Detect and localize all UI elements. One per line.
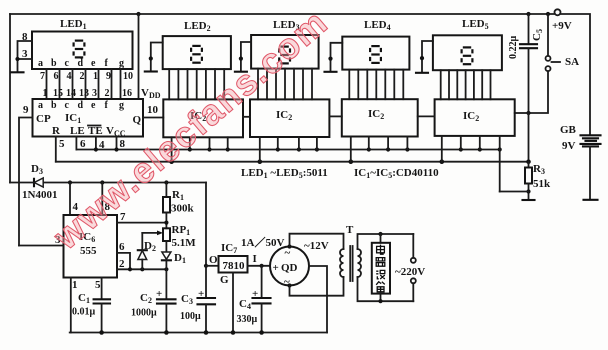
wire: rail to right corner [561,14,591,135]
svg-text:330μ: 330μ [237,314,258,325]
svg-text:Q: Q [133,114,142,126]
svg-text:~12V: ~12V [304,240,329,252]
svg-text:G: G [220,274,229,286]
svg-text:9: 9 [23,104,29,116]
wire: C5 node down to reset bus [528,113,530,162]
wires: LED3 to IC2#2 segment lines [258,69,312,100]
svg-text:1: 1 [43,88,48,99]
wires: LED4 to IC2#3 segment lines [349,70,403,100]
battery GB [560,124,601,152]
svg-text:7: 7 [40,71,45,82]
LED1 display [12,18,133,72]
IC1 counter CD40110 [33,99,144,138]
svg-text:TE: TE [88,125,103,137]
svg-text:+: + [156,288,162,300]
wire: last counter Vcc pin to R3 node [500,191,529,193]
watermark [45,1,336,258]
svg-text:1: 1 [72,279,78,291]
svg-text:b: b [51,100,57,111]
svg-text:100μ: 100μ [180,311,201,322]
LED5 display [416,18,502,73]
wire: LE/TE/Vcc bus [76,149,499,151]
capacitor C3 [180,266,215,333]
svg-text:e: e [91,58,96,69]
IC2 #1 [163,99,243,137]
svg-text:~: ~ [285,247,291,259]
svg-text:1N4001: 1N4001 [22,189,57,201]
wires: LED5 to IC2#4 segment lines [441,70,491,99]
wire: IC2#4 Q to C5 node [515,112,529,114]
IC1 pin numbers [43,88,133,99]
node: top rail junction at VDD line [136,12,140,16]
svg-text:c: c [65,100,70,111]
svg-text:g: g [119,100,124,111]
capacitor C4 [237,266,271,333]
wire: CP pin 9 [19,118,33,246]
wires: carry links between counters [243,116,250,118]
ground: R3 [523,199,535,201]
IC2 bottom pins to buses [172,136,500,192]
svg-text:1: 1 [93,71,98,82]
svg-text:+: + [198,288,204,300]
svg-text:LE: LE [70,125,85,137]
diode D2 [138,240,156,269]
svg-text:14: 14 [66,88,76,99]
wires: LED1 to IC1 (7 segment lines) [47,69,121,99]
svg-text:2: 2 [105,88,110,99]
capacitor C5 [508,14,544,113]
node: top rail junction at C5 [526,12,530,16]
svg-text:0.22μ: 0.22μ [508,36,519,60]
timer IC6 555 [19,183,168,333]
svg-text:a: a [38,58,43,69]
svg-text:R: R [52,125,61,137]
LED2 display [145,20,231,72]
potentiometer RP1 [142,224,196,250]
svg-text:6: 6 [80,138,86,150]
svg-text:c: c [65,58,70,69]
svg-text:1A／50V: 1A／50V [241,236,284,249]
svg-text:51k: 51k [533,178,551,190]
switch SA [529,14,580,113]
resistor R3 [525,162,551,199]
svg-text:8: 8 [22,31,28,43]
node: C5/SA junction [526,111,530,115]
svg-text:13: 13 [79,88,89,99]
svg-text:7810: 7810 [223,260,246,272]
svg-text:10: 10 [123,71,133,82]
nodes on D3 wire [68,180,72,184]
svg-text:9V: 9V [562,140,576,152]
terminal +9V [555,9,561,15]
wire: QD bottom AC to transformer [290,277,344,296]
LED1 pin numbers [40,71,133,82]
svg-text:16: 16 [122,88,132,99]
svg-text:+: + [273,262,279,274]
svg-text:0.01μ: 0.01μ [72,307,96,318]
svg-text:T: T [346,224,354,236]
svg-text:b: b [51,58,57,69]
svg-text:5: 5 [95,279,101,291]
diode D3 [10,163,206,201]
svg-text:+9V: +9V [552,20,572,32]
node: top rail junction at SA [546,12,550,16]
wire: R1 top rail corner down to O node [205,183,207,266]
svg-text:LED1 ~LED5:5011: LED1 ~LED5:5011 [241,167,328,180]
resistor R1 [163,183,195,229]
svg-text:9: 9 [106,71,111,82]
diode D1 [162,241,186,269]
svg-text:e: e [91,100,96,111]
bridge rectifier QD [270,240,329,288]
IC2 #4 [435,99,515,136]
wire: QD top AC to transformer [290,234,344,249]
svg-text:10: 10 [147,104,159,116]
svg-text:+: + [252,288,258,300]
svg-text:2: 2 [119,258,125,270]
transformer T [340,224,413,301]
svg-text:QD: QD [281,262,298,274]
regulator IC7 7810 [206,236,284,333]
wire: QD minus to bottom rail [309,266,327,333]
svg-text:a: a [38,100,43,111]
svg-text:3: 3 [22,48,28,60]
wire: left border vertical [9,14,11,183]
svg-text:2: 2 [80,71,85,82]
chinese chars placeholder glyphs (electric equipment) [376,245,385,292]
svg-text:CP: CP [36,113,51,125]
load box (electric equipment) [372,232,390,303]
wires: LED2 to IC2#1 segment lines [169,69,224,99]
svg-text:8: 8 [120,138,126,150]
wire: reset bus [56,161,529,163]
svg-text:6: 6 [54,71,59,82]
LED1 common pins 8,3 to ground [18,41,33,72]
AC 220V terminals [395,234,425,301]
IC1 bottom pins 5,6,4,8 [55,137,57,162]
svg-text:GB: GB [560,124,577,136]
svg-text:d: d [78,58,84,69]
LED3 display [235,19,319,72]
svg-text:5.1M: 5.1M [172,237,197,249]
svg-text:6: 6 [119,241,125,253]
capacitor C1 [72,292,110,333]
svg-text:I: I [253,253,257,265]
LED4 display [325,19,410,72]
wire: Q pin 10 to IC2 [143,117,163,119]
wire: +9V top rail [10,13,554,15]
svg-text:d: d [78,100,84,111]
svg-text:15: 15 [53,88,63,99]
ground: battery [584,199,598,201]
svg-text:300k: 300k [171,203,195,215]
capacitor C2 [131,269,176,332]
svg-text:1000μ: 1000μ [131,308,157,319]
wire: VDD from top rail [138,14,140,99]
svg-text:O: O [209,254,218,266]
svg-text:3: 3 [92,88,97,99]
svg-text:~220V: ~220V [395,266,425,278]
svg-text:5: 5 [59,138,65,150]
svg-text:g: g [119,58,124,69]
wire: bottom ground rail [70,332,327,334]
IC2 #2 [250,99,329,137]
wire: battery to ground [589,146,591,198]
IC2 #3 [342,99,418,136]
svg-text:4: 4 [67,71,72,82]
svg-text:SA: SA [565,56,579,68]
